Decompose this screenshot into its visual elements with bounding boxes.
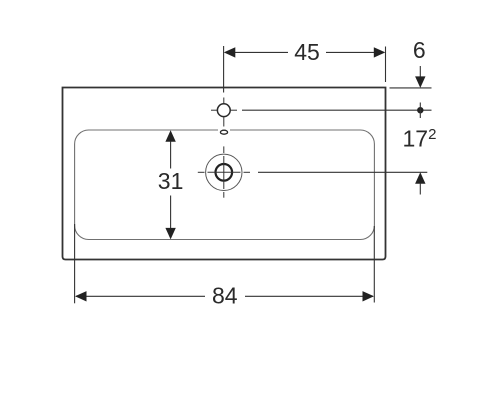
dimension 84 arrow left — [75, 291, 87, 301]
dimension 84 extension line right — [373, 226, 375, 303]
dimension 45 extension line left — [223, 46, 225, 93]
svg-text:31: 31 — [158, 168, 184, 194]
tap hole — [217, 104, 230, 117]
dimension end dot — [417, 107, 423, 113]
basin inner bowl — [75, 130, 375, 240]
svg-text:45: 45 — [294, 39, 320, 65]
svg-text:84: 84 — [212, 283, 238, 309]
svg-text:6: 6 — [413, 37, 426, 63]
tap hole centerline vertical — [223, 98, 225, 127]
dimension 6 arrow down — [415, 66, 425, 88]
tap hole dimension line to right — [242, 109, 432, 111]
basin outer outline — [63, 88, 386, 260]
dimension 84 line — [76, 295, 373, 297]
drain centerline vertical — [223, 146, 225, 197]
dimension 31 arrow up — [165, 130, 175, 168]
drain centerline extension right — [258, 171, 427, 173]
tap hole centerline horizontal — [211, 109, 237, 111]
dimension 45 arrow left — [224, 47, 236, 57]
dimension 84 extension line left — [74, 224, 76, 303]
dimension 45 label — [288, 39, 326, 65]
dimension end dot tick — [419, 103, 421, 119]
overflow hole — [218, 128, 230, 136]
drain centerline horizontal — [198, 171, 250, 173]
top edge extension line right — [390, 87, 432, 89]
dimension 45 arrow right — [374, 47, 386, 57]
dimension 84 label — [205, 283, 245, 309]
dimension 31 arrow down — [165, 196, 175, 240]
drain hole outer rim — [206, 154, 242, 190]
drain hole ring — [216, 164, 233, 181]
dimension 45 extension line right — [385, 47, 387, 83]
dimension 45 line — [226, 51, 384, 53]
dimension 17 arrow up — [415, 172, 425, 194]
dimension 84 arrow right — [363, 291, 375, 301]
